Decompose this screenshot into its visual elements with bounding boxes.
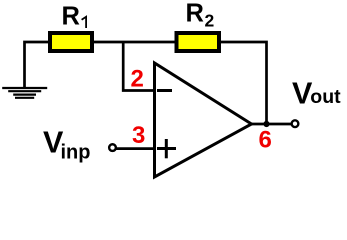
svg-text:2: 2 bbox=[205, 11, 215, 31]
svg-text:2: 2 bbox=[131, 66, 144, 93]
svg-text:6: 6 bbox=[259, 127, 272, 154]
svg-text:R: R bbox=[62, 3, 80, 31]
svg-text:R: R bbox=[186, 0, 204, 28]
svg-text:3: 3 bbox=[132, 122, 145, 149]
svg-text:inp: inp bbox=[61, 142, 91, 164]
svg-text:out: out bbox=[310, 86, 341, 108]
